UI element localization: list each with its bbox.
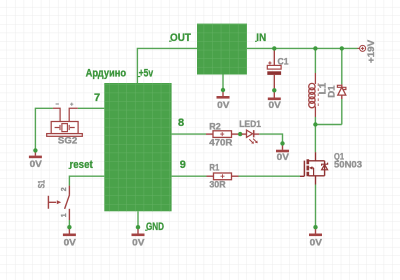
ground SG2 [29,148,42,169]
wire D1 bottom [341,99,343,125]
wire L1 to D1 bottom connector [315,124,341,126]
LED1 [242,130,260,137]
svg-text:0V: 0V [64,237,76,247]
L1 core dashed line [317,83,319,106]
wire R1 to Q1 gate [239,175,301,177]
wire LED1 to ground [259,134,282,143]
ground OUT block [217,88,230,110]
svg-text:S1: S1 [37,180,47,188]
svg-text:SG2: SG2 [58,135,77,145]
svg-text:0V: 0V [277,152,289,162]
svg-text:+19V: +19V [366,40,376,63]
svg-text:8: 8 [178,117,184,129]
LED1 emission arrows [249,139,257,144]
ground LED1 [276,141,289,162]
svg-text:0V: 0V [310,237,322,247]
SG2 polarity marks [56,103,74,106]
junction dot R2/LED1 [238,132,242,136]
wire pin9 to R1 [172,175,207,177]
Q1 substrate arrowhead [309,166,312,169]
wire SG2 minus to ground [35,108,53,150]
svg-text:0V: 0V [30,159,42,169]
ground S1 [63,225,76,247]
resistor R2 [206,131,238,138]
wire L1 bottom junction [314,117,316,152]
svg-text:LED1: LED1 [239,119,261,129]
svg-text:reset: reset [70,159,93,171]
svg-text:IN: IN [256,32,266,44]
svg-text:OUT: OUT [170,32,191,44]
svg-text:7: 7 [94,92,100,104]
svg-text:470R: 470R [209,138,233,148]
buzzer SG2 [47,108,83,136]
block Arduino [104,83,171,211]
wire S1 to ground [68,220,70,227]
ground GND pin [132,225,145,247]
svg-text:1: 1 [61,213,68,217]
diode D1 (schottky) [337,84,346,99]
svg-text:Ардуино: Ардуино [86,67,127,79]
svg-text:0V: 0V [132,237,144,247]
svg-text:R1: R1 [209,162,219,172]
supply +19V [358,40,377,63]
S1 actuator arrow [57,200,61,204]
wire OUT block bottom to ground [222,75,224,91]
wire pin8 to R2 [172,133,206,135]
svg-text:30R: 30R [209,179,226,189]
inductor L1 [309,73,316,117]
ground Q1 source [309,225,322,247]
wire Q1 source to ground [315,185,317,228]
net label origin ticks [69,41,257,230]
svg-text:+5v: +5v [139,67,154,79]
junction dot L1/D1 bottom [313,122,317,126]
svg-text:D1: D1 [327,85,337,97]
wire pin7 to SG2 plus [78,107,105,109]
junction dots top rail [313,46,317,50]
wire +5v from OUT block to Arduino top [137,48,197,83]
resistor R1 [207,173,239,180]
svg-text:9: 9 [180,159,186,171]
ground C1 [268,88,281,110]
svg-text:C1: C1 [278,57,289,67]
capacitor C1 [267,48,281,90]
wire L1 top [314,48,316,73]
svg-text:50N03: 50N03 [334,160,362,170]
wire reset to S1 [69,176,104,185]
junction dot at C1 top [272,46,276,50]
wire D1 top [341,48,343,84]
block OUT/IN converter [197,24,247,75]
transistor Q1 MOSFET [300,152,328,184]
svg-text:0V: 0V [269,100,281,110]
switch S1 [48,186,69,220]
svg-text:R2: R2 [209,122,221,132]
svg-text:GND: GND [146,221,164,233]
wire GND pin to ground [137,211,139,227]
wire top right rail [247,47,358,49]
svg-text:0V: 0V [217,100,229,110]
svg-text:2: 2 [61,187,68,191]
